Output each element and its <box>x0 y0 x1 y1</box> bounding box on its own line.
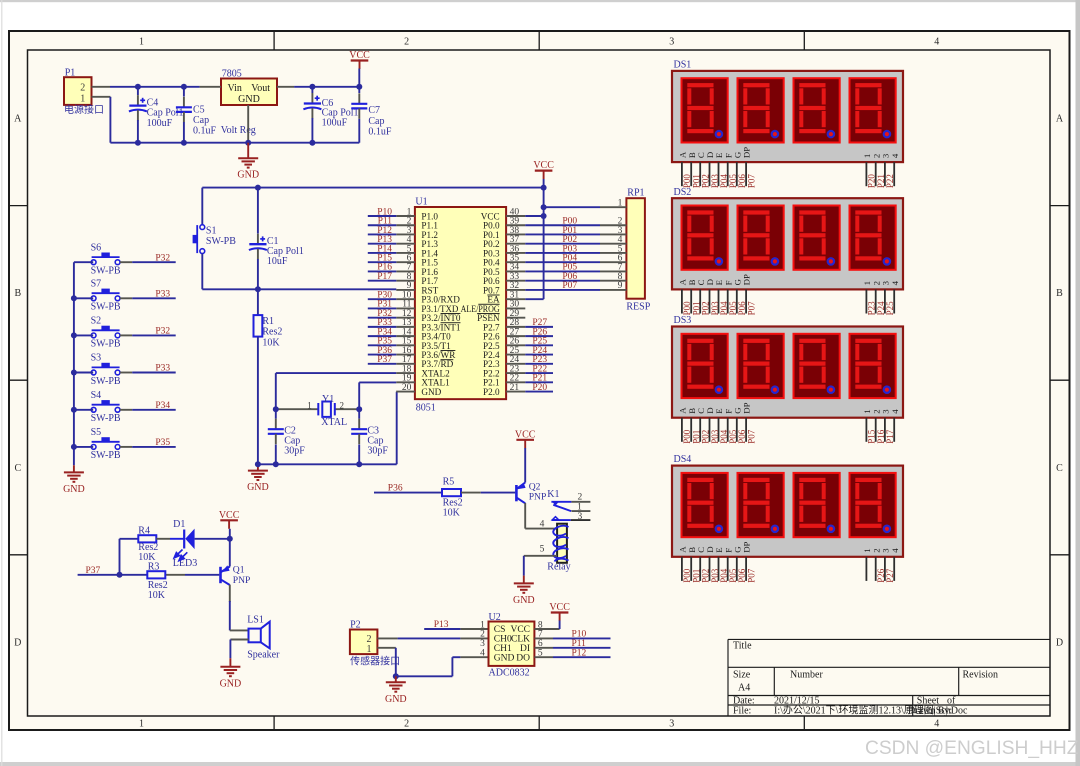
capacitor C5 Cap 0.1uF <box>176 88 217 143</box>
svg-text:DS3: DS3 <box>674 315 692 326</box>
svg-text:SW-PB: SW-PB <box>91 450 121 461</box>
power ground GND at 7805 <box>237 143 259 181</box>
wires U1 port1 and port3 nets <box>368 216 397 364</box>
svg-text:P25: P25 <box>885 301 895 316</box>
svg-text:File:: File: <box>733 705 751 716</box>
IC U2 ADC0832 <box>480 612 559 679</box>
svg-text:4: 4 <box>540 519 545 529</box>
svg-text:100uF: 100uF <box>147 118 173 129</box>
svg-text:30pF: 30pF <box>367 446 388 457</box>
svg-text:1: 1 <box>80 94 85 105</box>
wire VCC rail to 8051 area <box>202 188 543 225</box>
svg-text:U2: U2 <box>489 612 501 623</box>
junction dots RST and VCC rails <box>255 185 261 293</box>
power ground GND below R1 <box>247 464 269 493</box>
resistor R5 Res2 10K <box>442 477 481 519</box>
net label P36 wire to R5 <box>374 484 442 494</box>
svg-text:10K: 10K <box>262 338 280 349</box>
speaker LS1 <box>230 615 280 661</box>
wire power ground rail <box>110 142 359 144</box>
svg-text:CSDN @ENGLISH_HHZ: CSDN @ENGLISH_HHZ <box>865 738 1079 759</box>
svg-text:GND: GND <box>238 94 260 105</box>
svg-text:D: D <box>14 637 21 648</box>
svg-text:A: A <box>1056 114 1064 125</box>
wire P1 pin2 to 7805 Vin <box>110 86 200 88</box>
svg-text:P1: P1 <box>65 68 76 79</box>
svg-text:S2: S2 <box>91 316 102 327</box>
wire VCC branch to RP1 pin1 <box>544 206 600 208</box>
svg-text:P33: P33 <box>155 289 170 299</box>
display DS3 4-digit 7-segment <box>672 315 903 442</box>
net label P37 wire <box>78 566 148 576</box>
junction dots XTAL <box>255 406 362 467</box>
svg-text:P2: P2 <box>350 620 361 631</box>
svg-text:S4: S4 <box>91 390 102 401</box>
svg-text:LED3: LED3 <box>173 558 197 569</box>
U1 right pins 40-21 stubs and numbers <box>506 207 525 393</box>
svg-text:Size: Size <box>733 670 751 681</box>
svg-text:P2.0: P2.0 <box>483 387 500 397</box>
junction dot P37-R4 <box>117 572 123 578</box>
wire GND pin20 down to ground rail <box>395 392 397 465</box>
svg-text:S7: S7 <box>91 279 102 290</box>
net labels P10 P11 P12 at U2 <box>572 630 587 659</box>
svg-text:10K: 10K <box>148 590 166 601</box>
svg-text:GND: GND <box>421 387 441 397</box>
svg-text:2: 2 <box>404 37 409 48</box>
wire XTAL2 pin18 to Y1 <box>276 373 397 409</box>
svg-text:0.1uF: 0.1uF <box>193 126 217 137</box>
svg-text:XTAL: XTAL <box>321 417 347 428</box>
node P32 net label at S6 <box>155 253 170 263</box>
svg-text:9: 9 <box>618 281 623 291</box>
resistor R3 Res2 10K <box>147 562 167 602</box>
transistor Q1 PNP <box>165 539 250 586</box>
wire 7805 Vout to VCC node <box>294 86 359 88</box>
LED D1 LED3 <box>170 519 230 569</box>
svg-text:4: 4 <box>934 719 939 730</box>
svg-text:7805: 7805 <box>222 69 242 80</box>
svg-text:电源接口: 电源接口 <box>64 103 104 116</box>
svg-text:P07: P07 <box>746 174 756 189</box>
wire R5 to Q2 base <box>481 492 516 494</box>
svg-text:4: 4 <box>934 37 939 48</box>
svg-text:ADC0832: ADC0832 <box>489 667 530 678</box>
svg-text:100uF: 100uF <box>322 118 348 129</box>
svg-text:DS2: DS2 <box>674 187 692 198</box>
svg-text:P33: P33 <box>155 364 170 374</box>
svg-text:Speaker: Speaker <box>247 650 280 661</box>
relay K1 contacts <box>547 489 590 522</box>
DS1 segment net labels <box>682 174 895 189</box>
svg-text:1: 1 <box>618 198 623 208</box>
svg-text:21: 21 <box>510 383 520 393</box>
svg-text:A4: A4 <box>738 683 750 694</box>
svg-text:RESP: RESP <box>626 301 650 312</box>
pushbutton S4 SW-PB <box>74 390 132 424</box>
svg-text:C: C <box>14 463 21 474</box>
svg-text:C7: C7 <box>368 105 380 116</box>
svg-text:Y1: Y1 <box>322 394 334 405</box>
wire XTAL1 pin19 to Y1 <box>359 382 396 409</box>
power ground GND below P2 <box>385 676 407 705</box>
svg-text:P07: P07 <box>746 301 756 316</box>
svg-text:P20: P20 <box>532 383 547 393</box>
node P33 net label at S7 <box>155 289 170 299</box>
capacitor C4 Cap Pol1 100uF <box>129 88 184 143</box>
svg-text:30pF: 30pF <box>284 446 305 457</box>
power symbol VCC at D1 <box>219 510 240 539</box>
svg-text:Number: Number <box>790 670 823 681</box>
svg-text:Cap: Cap <box>193 115 209 126</box>
svg-text:DO: DO <box>516 653 530 663</box>
crystal Y1 XTAL <box>276 394 359 428</box>
net labels P00-P07 port0 <box>562 217 577 292</box>
voltage regulator U 7805 <box>200 69 295 143</box>
svg-text:R5: R5 <box>443 477 455 488</box>
wire U2 CLK DI DO nets <box>553 638 611 657</box>
pushbutton S5 SW-PB <box>74 427 132 461</box>
svg-text:P22: P22 <box>885 174 895 188</box>
svg-text:Title: Title <box>733 641 752 652</box>
wires U1 port0 to RP1 <box>525 225 600 290</box>
svg-text:P17: P17 <box>377 272 392 282</box>
power ground GND below buttons <box>63 465 85 495</box>
svg-text:P35: P35 <box>155 438 170 448</box>
svg-text:P27: P27 <box>885 568 895 583</box>
svg-text:10uF: 10uF <box>267 256 288 267</box>
svg-text:8051: 8051 <box>416 403 436 414</box>
svg-text:Relay: Relay <box>547 562 570 573</box>
wire P2 pin1 to U2 GND and ground <box>393 648 489 680</box>
power symbol VCC top-left <box>349 50 370 87</box>
svg-text:2: 2 <box>80 83 85 94</box>
svg-text:SW-PB: SW-PB <box>91 266 121 277</box>
svg-text:Cap: Cap <box>368 116 384 127</box>
svg-text:LS1: LS1 <box>247 615 264 626</box>
net labels P27-P20 port2 <box>532 318 547 393</box>
U1 left pins 1-20 stubs and numbers <box>396 207 415 393</box>
svg-text:P37: P37 <box>377 355 392 365</box>
wire XTAL ground rail <box>258 463 397 465</box>
net labels P10-P17 and P30-P37 <box>377 207 392 365</box>
net label P13 wire to U2 CS <box>424 620 488 630</box>
node P34 net label at S4 <box>155 401 170 411</box>
svg-text:2: 2 <box>404 719 409 730</box>
svg-text:2: 2 <box>577 492 582 502</box>
power ground GND below speaker <box>220 658 242 689</box>
wire pin40 VCC connect <box>525 215 543 217</box>
title block <box>728 639 1050 716</box>
svg-text:P07: P07 <box>746 429 756 444</box>
svg-text:Vin: Vin <box>228 83 242 94</box>
pushbutton S2 SW-PB <box>74 316 132 350</box>
DS3 segment net labels <box>682 429 895 444</box>
power symbol VCC at U2 <box>549 602 570 629</box>
svg-text:B: B <box>1056 288 1063 299</box>
wire S3 to net P33 <box>132 372 176 374</box>
junction dots button rail <box>71 295 77 450</box>
wire speaker to ground <box>229 640 231 659</box>
power symbol VCC above U1 <box>533 160 554 179</box>
wire Q1 collector to speaker <box>230 585 249 631</box>
svg-text:SW-PB: SW-PB <box>91 339 121 350</box>
svg-text:Res2: Res2 <box>262 327 282 338</box>
svg-text:3: 3 <box>577 512 582 522</box>
svg-text:D1: D1 <box>173 519 185 530</box>
svg-text:4: 4 <box>480 649 485 659</box>
connector P2 sensor header <box>350 620 400 668</box>
svg-text:3: 3 <box>669 37 674 48</box>
svg-text:Vout: Vout <box>251 83 270 94</box>
svg-text:P32: P32 <box>155 253 170 263</box>
node P32 net label at S2 <box>155 327 170 337</box>
wires U1 port2 nets <box>525 327 553 392</box>
pushbutton S3 SW-PB <box>74 353 132 387</box>
svg-text:0.1uF: 0.1uF <box>368 127 392 138</box>
svg-text:P34: P34 <box>155 401 170 411</box>
svg-text:B: B <box>14 288 21 299</box>
svg-text:P07: P07 <box>562 281 577 291</box>
svg-text:U1: U1 <box>415 197 427 208</box>
svg-text:20: 20 <box>402 383 412 393</box>
svg-text:R3: R3 <box>148 562 160 573</box>
wire S1 to RST rail <box>201 254 203 290</box>
svg-text:GND: GND <box>494 653 515 663</box>
capacitor C6 Cap Pol1 100uF <box>303 88 358 143</box>
svg-text:P07: P07 <box>746 568 756 583</box>
display DS2 4-digit 7-segment <box>672 187 903 314</box>
svg-text:DS1: DS1 <box>674 60 692 71</box>
svg-text:5: 5 <box>540 545 545 555</box>
svg-text:S3: S3 <box>91 353 102 364</box>
node P35 net label at S5 <box>155 438 170 448</box>
display DS4 4-digit 7-segment <box>672 454 903 581</box>
svg-text:SW-PB: SW-PB <box>91 413 121 424</box>
svg-text:1: 1 <box>139 37 144 48</box>
svg-text:3: 3 <box>669 719 674 730</box>
wire VCC stem to EA <box>525 179 543 299</box>
svg-text:RP1: RP1 <box>627 188 644 199</box>
transistor Q2 PNP <box>516 481 546 503</box>
svg-text:P12: P12 <box>572 648 587 658</box>
svg-text:Revision: Revision <box>963 670 999 681</box>
resistor R4 Res2 10K <box>120 526 171 575</box>
pushbutton S6 SW-PB <box>74 242 132 276</box>
svg-text:R4: R4 <box>138 526 150 537</box>
power ground GND below relay <box>513 576 535 606</box>
wire S6 to net P32 <box>132 261 176 263</box>
capacitor C3 Cap 30pF <box>351 409 388 464</box>
pushbutton S7 SW-PB <box>74 279 132 313</box>
wire P1 pin1 down to ground rail <box>109 97 111 143</box>
svg-text:10K: 10K <box>443 508 461 519</box>
display DS1 4-digit 7-segment <box>672 60 903 187</box>
wire S7 to net P33 <box>132 297 176 299</box>
wire RST net rail <box>202 288 396 290</box>
DS2 segment net labels <box>682 301 895 316</box>
wire Q2 collector to relay pin4 <box>525 503 557 529</box>
svg-text:A: A <box>14 114 22 125</box>
svg-text:1: 1 <box>307 400 312 410</box>
svg-text:PNP: PNP <box>529 492 547 503</box>
wire S2 to net P32 <box>132 334 176 336</box>
capacitor C1 Cap Pol1 10uF <box>249 188 304 290</box>
svg-text:SW-PB: SW-PB <box>91 376 121 387</box>
node P33 net label at S3 <box>155 364 170 374</box>
svg-text:1: 1 <box>139 719 144 730</box>
svg-text:DS4: DS4 <box>674 454 692 465</box>
svg-text:Res2: Res2 <box>148 580 168 591</box>
wire S5 to net P35 <box>132 446 176 448</box>
junction dots VCC column <box>541 185 547 219</box>
pushbutton S1 SW-PB <box>193 225 237 254</box>
DS4 segment net labels <box>682 568 895 583</box>
capacitor C7 Cap 0.1uF <box>351 88 392 143</box>
wire P2 pin2 to U2 CH0 <box>398 637 489 639</box>
svg-text:S6: S6 <box>91 242 102 253</box>
power symbol VCC at Q2 <box>515 429 536 482</box>
svg-text:Volt Reg: Volt Reg <box>221 125 256 136</box>
svg-text:C5: C5 <box>193 105 205 116</box>
IC U1 8051 body <box>415 197 506 414</box>
capacitor C2 Cap 30pF <box>268 409 305 464</box>
junction dots power rails <box>135 84 362 146</box>
svg-text:SW-PB: SW-PB <box>91 302 121 313</box>
watermark CSDN @ENGLISH_HHZ <box>865 738 1079 759</box>
connector P1 power header <box>64 68 110 117</box>
svg-text:K1: K1 <box>547 489 559 500</box>
svg-text:SW-PB: SW-PB <box>206 236 236 247</box>
svg-text:PNP: PNP <box>233 575 251 586</box>
relay K1 coil <box>547 524 570 573</box>
resistor R1 Res2 10K <box>254 289 283 464</box>
svg-text:D: D <box>1056 637 1063 648</box>
svg-text:P32: P32 <box>155 327 170 337</box>
svg-text:S5: S5 <box>91 427 102 438</box>
svg-text:P17: P17 <box>885 429 895 444</box>
svg-text:Drawn By:: Drawn By: <box>908 705 952 716</box>
wire button common rail <box>73 262 75 465</box>
svg-text:C: C <box>1056 463 1063 474</box>
U1 pin names inside body <box>421 211 500 397</box>
wire relay pin5 to ground <box>524 545 557 576</box>
junction dot VCC-D1-Q1 <box>227 536 233 542</box>
wire S4 to net P34 <box>132 409 176 411</box>
resistor pack RP1 RESP <box>600 188 651 313</box>
svg-text:传感器接口: 传感器接口 <box>350 655 400 668</box>
svg-text:1: 1 <box>367 644 372 655</box>
svg-text:R1: R1 <box>262 316 274 327</box>
svg-text:2: 2 <box>340 400 345 410</box>
